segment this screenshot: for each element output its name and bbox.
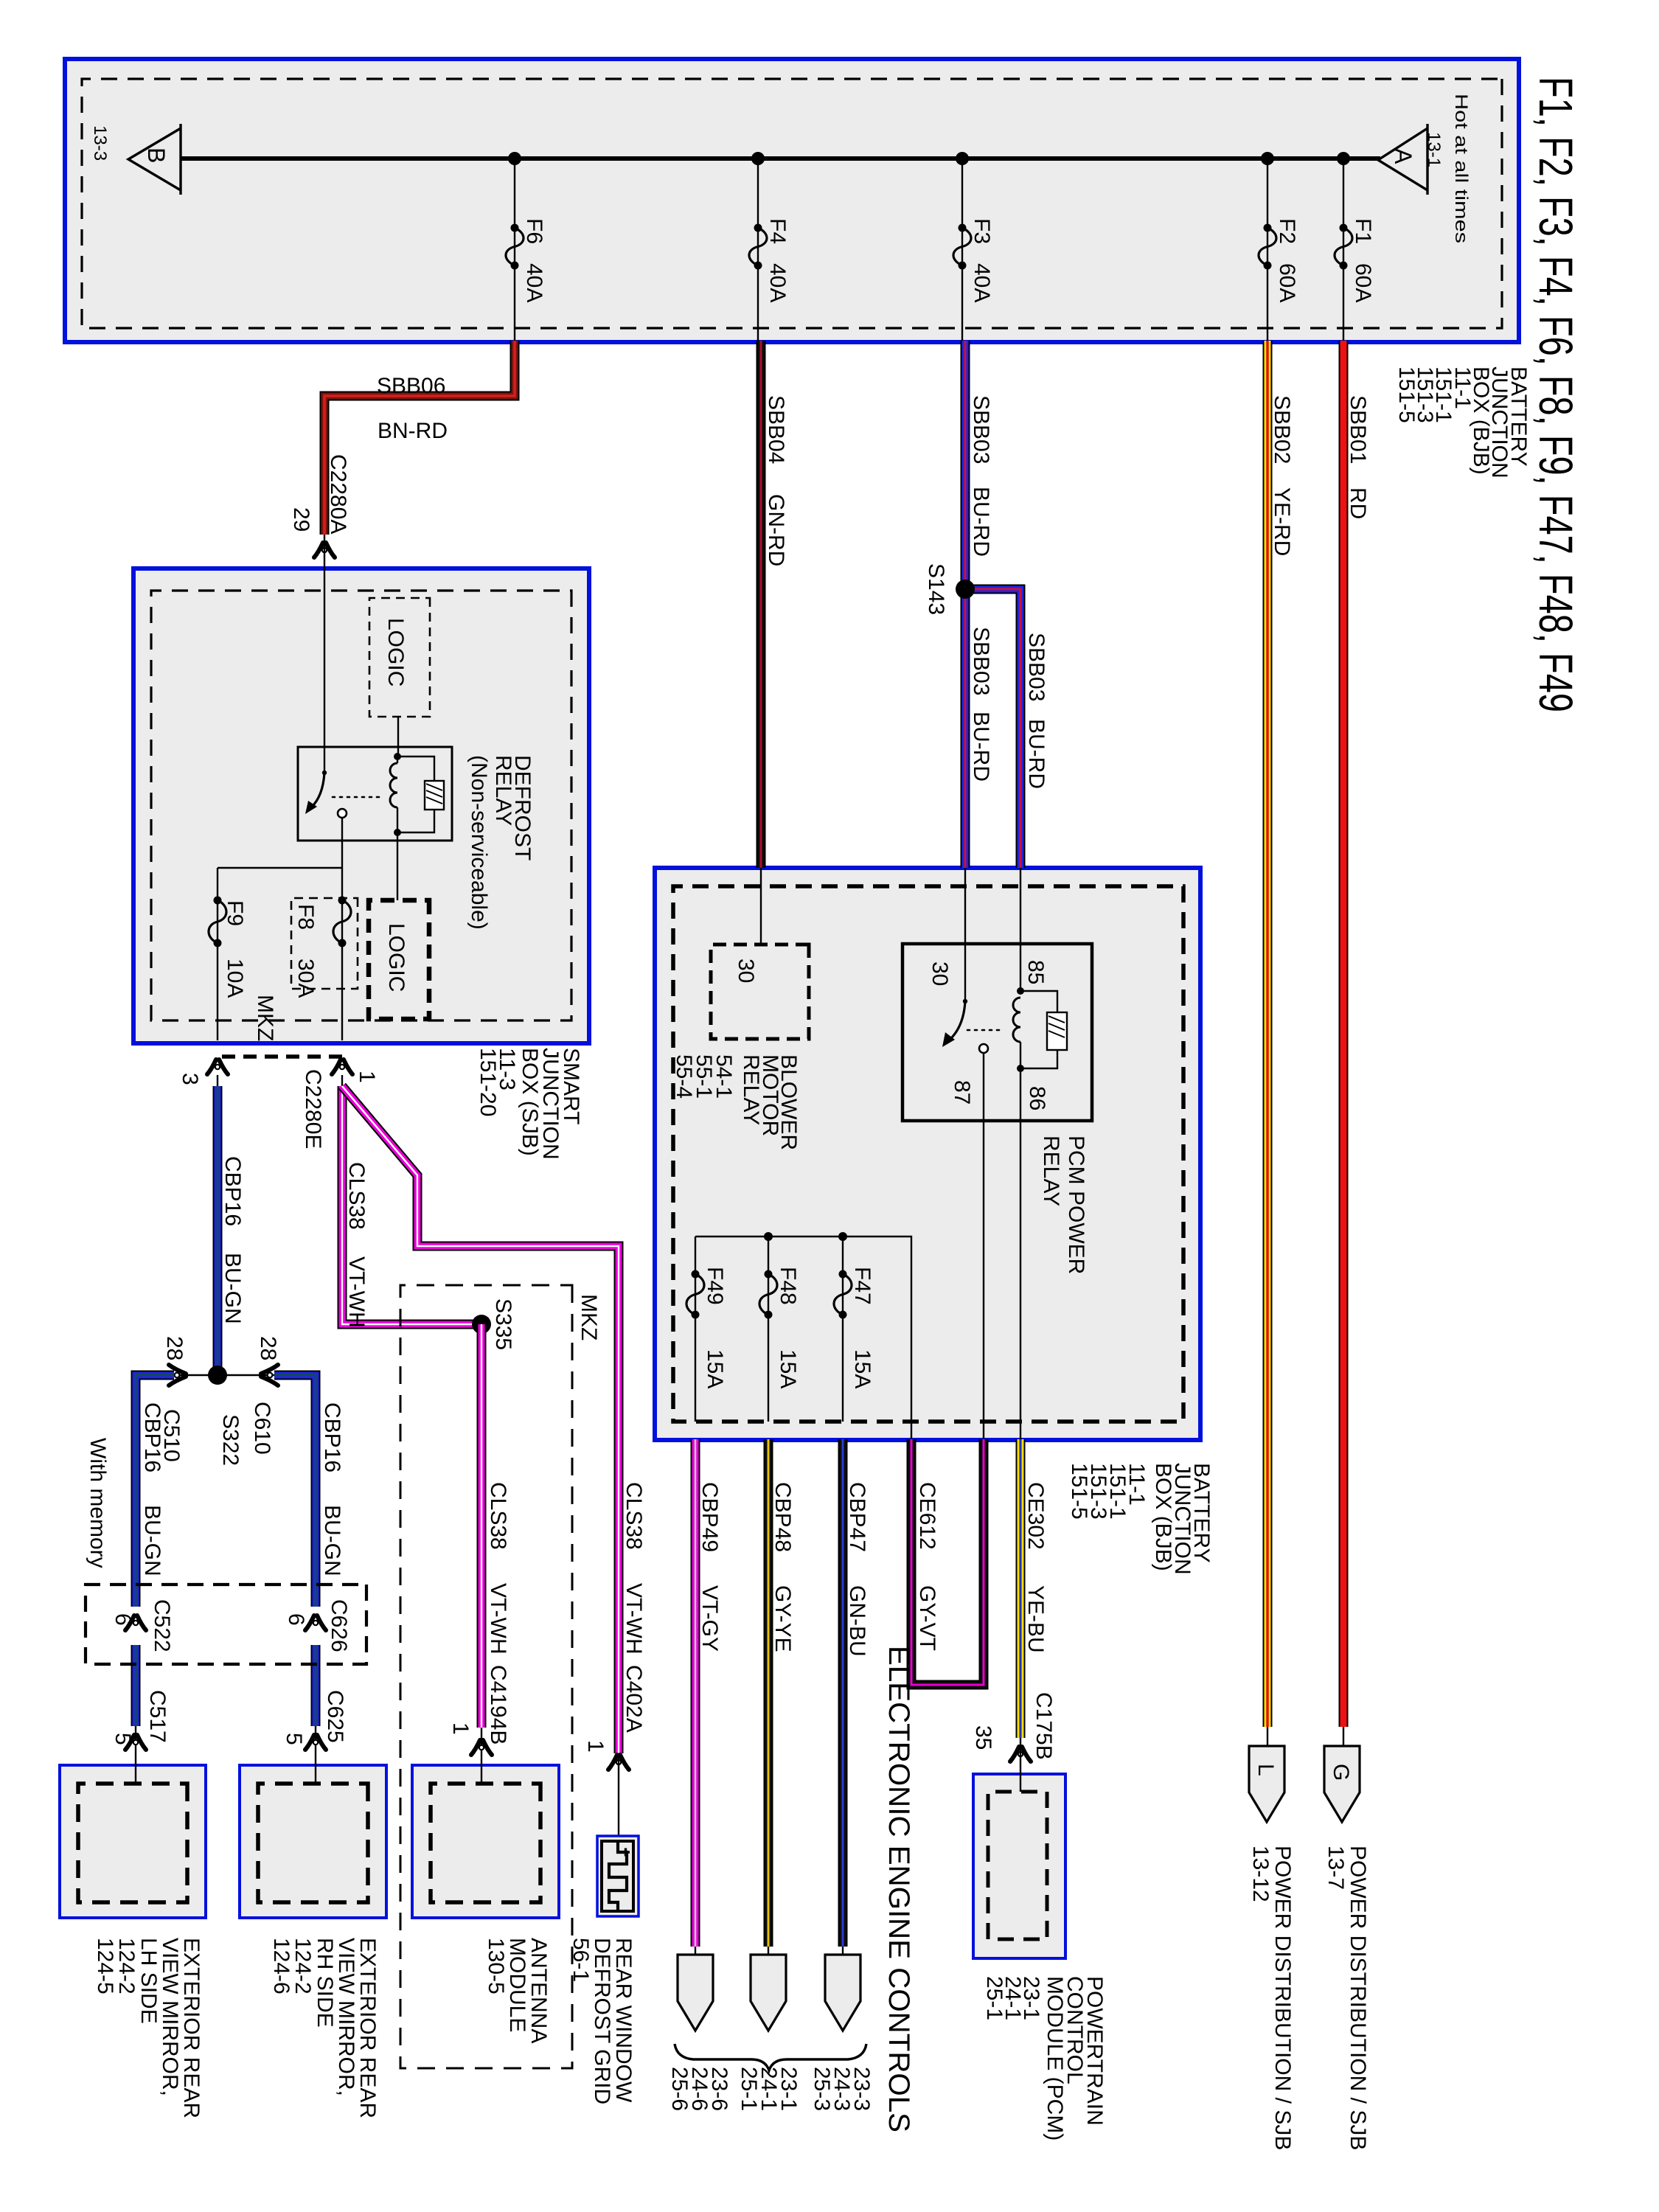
svg-text:CBP49: CBP49 [698, 1482, 722, 1552]
connector C610 arrow [261, 1365, 278, 1385]
svg-text:F6: F6 [522, 218, 546, 244]
label CBP16 BU-GN feed [220, 1156, 245, 1324]
svg-text:F9: F9 [223, 900, 247, 926]
svg-text:BN-RD: BN-RD [378, 419, 448, 443]
BJB1 inner dashed border [82, 79, 1502, 328]
label 6 C626 [284, 1599, 351, 1652]
svg-text:124-5: 124-5 [93, 1938, 117, 1994]
svg-text:GY-VT: GY-VT [915, 1585, 939, 1651]
svg-text:F48: F48 [776, 1267, 800, 1305]
label C2280A [326, 454, 350, 534]
svg-text:LH SIDE: LH SIDE [136, 1938, 161, 2024]
svg-text:F4: F4 [765, 218, 790, 244]
svg-text:13-3: 13-3 [90, 125, 110, 161]
svg-text:BOX (SJB): BOX (SJB) [518, 1048, 542, 1156]
svg-text:SBB06: SBB06 [377, 374, 445, 398]
BJB2 label block [1067, 1463, 1214, 1575]
battery junction box BJB1 outline [65, 59, 1519, 342]
svg-text:F1, F2, F3, F4, F6, F8, F9, F4: F1, F2, F3, F4, F6, F8, F9, F47, F48, F4… [1529, 77, 1582, 712]
connector C626 arrow [305, 1615, 326, 1630]
labels 23-3 24-3 25-3 [810, 2067, 874, 2111]
svg-text:13-7: 13-7 [1324, 1846, 1348, 1890]
svg-text:C2280A: C2280A [326, 454, 350, 534]
svg-text:86: 86 [1025, 1086, 1049, 1110]
svg-text:SBB03: SBB03 [969, 627, 993, 695]
fuse F8 [333, 897, 351, 947]
antenna module box [412, 1765, 559, 1918]
label Hot at all times [1451, 94, 1471, 243]
label CE612 GY-VT [915, 1482, 939, 1651]
svg-text:30A: 30A [293, 959, 318, 998]
defrost relay box [298, 747, 452, 841]
BJB1 label block [1394, 366, 1531, 479]
svg-text:C610: C610 [250, 1402, 274, 1455]
svg-text:C626: C626 [327, 1599, 351, 1652]
wire SBB02 YE-RD [1263, 341, 1273, 1727]
svg-text:6: 6 [111, 1613, 135, 1626]
PCM relay pin labels [928, 960, 1049, 1110]
svg-text:87: 87 [950, 1080, 974, 1105]
With memory dashed box [86, 1585, 366, 1664]
label CBP16 BU-GN RH branch [320, 1402, 344, 1576]
defrost relay dotted link [333, 796, 384, 799]
PCM relay switch [942, 945, 988, 1121]
blower motor relay dashed box [711, 945, 809, 1039]
label MKZ SJB [253, 995, 277, 1041]
label MKZ [577, 1294, 601, 1340]
svg-text:POWER DISTRIBUTION / SJB: POWER DISTRIBUTION / SJB [1270, 1846, 1295, 2150]
svg-text:15A: 15A [776, 1349, 800, 1388]
battery junction box BJB2 outline [655, 868, 1200, 1440]
label CLS38 VT-WH long run [622, 1482, 646, 1733]
wire CBP48 GY-YE [764, 1439, 773, 1955]
svg-text:151-5: 151-5 [1394, 366, 1419, 423]
svg-text:25-6: 25-6 [667, 2067, 692, 2111]
svg-text:60A: 60A [1275, 263, 1299, 302]
bus bar [181, 156, 1380, 161]
label POWER DISTRIBUTION SJB 13-12 [1248, 1846, 1295, 2150]
svg-text:56-1: 56-1 [568, 1938, 593, 1982]
connector C4194B arrow [471, 1740, 492, 1755]
wire LOGIC1 to coil [397, 717, 399, 757]
svg-text:A: A [1390, 148, 1416, 164]
wire CE612 GY-VT U-turn [911, 1439, 984, 1685]
label pin 3 [178, 1073, 202, 1085]
svg-text:C517: C517 [145, 1690, 170, 1743]
svg-text:124-6: 124-6 [269, 1938, 293, 1994]
label 6 C522 [111, 1599, 174, 1652]
svg-text:POWER DISTRIBUTION / SJB: POWER DISTRIBUTION / SJB [1346, 1846, 1370, 2150]
powertrain control module box [973, 1774, 1065, 1958]
svg-text:PCM POWER: PCM POWER [1064, 1135, 1088, 1274]
wire SBB04 GN-RD [757, 341, 766, 868]
svg-text:5: 5 [282, 1733, 306, 1745]
wire pin87 inside BJB2 [983, 1121, 984, 1439]
exterior rear view mirror RH box [240, 1765, 386, 1918]
svg-text:LOGIC: LOGIC [383, 618, 408, 686]
label CE302 YE-BU [1023, 1482, 1048, 1653]
label CLS38 VT-WH antenna [486, 1482, 510, 1745]
wire CBP16 LH branch [136, 1375, 174, 1765]
label F9 10A [223, 900, 247, 998]
title F-list [1529, 77, 1582, 712]
wire BJB1 branch F4 [757, 159, 759, 341]
fuse F4 [749, 218, 790, 302]
svg-text:40A: 40A [970, 263, 994, 302]
connector C402A arrow [608, 1753, 629, 1841]
wire CBP16 BU-GN feed [217, 1075, 218, 1375]
wire CLS38 VT-WH from SJB [342, 1075, 481, 1324]
terminal CBP48 [751, 1955, 786, 2031]
node bus junction F3 [956, 152, 969, 165]
PCM label block [982, 1976, 1107, 2140]
svg-text:F1: F1 [1351, 218, 1375, 244]
wire SBB03b into relay 85 [1020, 868, 1021, 945]
BLOWER MOTOR RELAY label [672, 1054, 801, 1150]
svg-text:C2280E: C2280E [301, 1069, 325, 1149]
svg-text:SBB03: SBB03 [969, 395, 993, 464]
label CBP47 GN-BU [845, 1482, 869, 1657]
F8 dashed box [291, 898, 358, 989]
PCM relay coil resistor [1020, 991, 1067, 1068]
defrost relay switch [305, 747, 347, 868]
svg-text:VT-GY: VT-GY [698, 1585, 722, 1652]
svg-text:GN-RD: GN-RD [764, 494, 788, 566]
wire F47 branch [842, 1237, 844, 1422]
label pin 1 [355, 1071, 379, 1083]
svg-text:1: 1 [355, 1071, 379, 1083]
svg-text:25-1: 25-1 [737, 2067, 761, 2111]
svg-text:MKZ: MKZ [253, 995, 277, 1041]
mirror LH label [93, 1938, 204, 2118]
label C2280E [301, 1069, 325, 1149]
label C175B [1032, 1692, 1056, 1760]
svg-text:BU-GN: BU-GN [140, 1505, 164, 1576]
svg-text:S322: S322 [218, 1414, 243, 1466]
wire SBB06 BN-RD [324, 341, 515, 535]
svg-text:F3: F3 [970, 218, 994, 244]
wire CE302 YE-BU [1016, 1439, 1026, 1738]
svg-text:6: 6 [284, 1613, 308, 1626]
svg-text:MODULE (PCM): MODULE (PCM) [1043, 1976, 1067, 2140]
svg-text:ELECTRONIC ENGINE CONTROLS: ELECTRONIC ENGINE CONTROLS [883, 1646, 915, 2132]
svg-text:SBB02: SBB02 [1270, 395, 1294, 464]
svg-text:RD: RD [1346, 487, 1370, 519]
label pin 29 [289, 507, 313, 532]
label SBB04 GN-RD [764, 395, 788, 566]
svg-text:SBB04: SBB04 [764, 395, 788, 464]
PCM relay coil [1013, 945, 1024, 1121]
MKZ dashed box [400, 1285, 572, 2068]
svg-text:CBP16: CBP16 [140, 1402, 164, 1472]
svg-text:YE-BU: YE-BU [1023, 1585, 1048, 1653]
defrost relay coil resistor [397, 757, 444, 832]
defrost relay coil [390, 753, 401, 836]
antenna module label [484, 1938, 551, 2043]
svg-text:C175B: C175B [1032, 1692, 1056, 1760]
svg-text:CLS38: CLS38 [486, 1482, 510, 1550]
wire F9 branch [217, 868, 218, 1040]
label CBP49 VT-GY [698, 1482, 722, 1652]
label BN-RD [378, 419, 448, 443]
wire SBB02 tail [1267, 1727, 1268, 1746]
svg-text:25-3: 25-3 [810, 2067, 834, 2111]
svg-text:CLS38: CLS38 [344, 1162, 369, 1230]
label CLS38 VT-WH seg1 [344, 1162, 369, 1328]
label 13-3 [90, 125, 110, 161]
svg-text:35: 35 [971, 1725, 995, 1750]
fuse F1 [1335, 218, 1375, 302]
svg-text:SBB01: SBB01 [1346, 395, 1370, 464]
wire SBB03a into relay 30 [964, 868, 966, 945]
label ELECTRONIC ENGINE CONTROLS [883, 1646, 915, 2132]
svg-text:40A: 40A [765, 263, 790, 302]
svg-text:Hot at all times: Hot at all times [1451, 94, 1471, 243]
node S143 [924, 563, 975, 615]
wire CBP47 GN-BU [838, 1439, 848, 1955]
wire relay to fuses F8 F9 [218, 867, 342, 869]
wire CBP16 RH branch [274, 1375, 316, 1765]
svg-text:15A: 15A [703, 1349, 727, 1388]
wire BJB1 branch F3 [961, 159, 963, 341]
defrost grid label [568, 1938, 636, 2104]
connector pin1 arrow [332, 1060, 352, 1074]
smart junction box SJB outline [133, 568, 589, 1043]
svg-text:BU-RD: BU-RD [1024, 719, 1048, 789]
fuse F2 [1259, 218, 1299, 302]
connector C175B arrow [1010, 1738, 1031, 1774]
connector C522 arrow [125, 1615, 146, 1630]
label SBB01 RD [1346, 395, 1370, 519]
wire splice bar S322 [136, 1374, 317, 1376]
svg-text:1: 1 [583, 1740, 608, 1753]
terminal L [1249, 1746, 1284, 1822]
wire coil to LOGIC2 [397, 832, 398, 900]
svg-text:130-5: 130-5 [484, 1938, 508, 1994]
wire SBB01 RD [1339, 341, 1349, 1727]
wire F48 branch [768, 1237, 769, 1422]
label SBB03 BU-RD upper [969, 395, 993, 557]
wire SBB04 into blower relay [760, 868, 762, 945]
label 28 C510 [159, 1336, 187, 1462]
terminal CBP47 [825, 1955, 860, 2031]
fuse F3 [953, 218, 994, 302]
svg-text:VT-WH: VT-WH [486, 1583, 510, 1655]
PCM POWER RELAY label [1039, 1135, 1088, 1274]
label 28 C610 [250, 1336, 280, 1455]
fuse F48 [759, 1267, 800, 1388]
svg-text:15A: 15A [850, 1349, 874, 1388]
wire F8 branch [341, 868, 343, 1040]
svg-text:28: 28 [256, 1336, 280, 1360]
svg-text:C4194B: C4194B [486, 1665, 510, 1745]
node bus junction F6 [508, 152, 521, 165]
SJB inner dashed border [151, 591, 571, 1020]
C2280E connector dashed line [218, 1054, 342, 1059]
svg-text:25-1: 25-1 [982, 1976, 1006, 2020]
LOGIC box 2 [369, 900, 429, 1019]
svg-text:YE-RD: YE-RD [1270, 487, 1294, 556]
svg-text:F2: F2 [1275, 218, 1299, 244]
svg-text:S143: S143 [924, 563, 948, 615]
svg-text:RELAY: RELAY [491, 755, 515, 826]
svg-text:BU-GN: BU-GN [220, 1253, 245, 1324]
PCM power relay box [902, 944, 1092, 1121]
svg-text:CBP16: CBP16 [220, 1156, 245, 1226]
svg-text:BU-RD: BU-RD [969, 712, 993, 782]
wire BJB1 branch F1 [1343, 159, 1344, 341]
svg-text:RELAY: RELAY [1039, 1135, 1063, 1206]
node S335 [472, 1298, 515, 1350]
mirror RH label [269, 1938, 380, 2118]
node F47 junction [838, 1232, 847, 1241]
svg-text:GN-BU: GN-BU [845, 1585, 869, 1657]
svg-text:3: 3 [178, 1073, 202, 1085]
label CBP48 GY-YE [771, 1482, 795, 1652]
label pin 35 [971, 1725, 995, 1750]
node bus junction F2 [1261, 152, 1274, 165]
svg-text:10A: 10A [223, 959, 247, 998]
svg-text:85: 85 [1023, 960, 1048, 984]
svg-text:CBP47: CBP47 [845, 1482, 869, 1552]
svg-text:(Non-serviceable): (Non-serviceable) [467, 755, 491, 930]
triangle A [1378, 124, 1427, 195]
brace electronic engine controls [675, 2044, 866, 2070]
svg-text:CLS38: CLS38 [622, 1482, 646, 1550]
SJB label block [476, 1048, 583, 1160]
label 13-1 [1424, 132, 1444, 167]
svg-text:SBB03: SBB03 [1024, 633, 1048, 701]
svg-text:RH SIDE: RH SIDE [313, 1938, 337, 2028]
wire into defrost relay [324, 570, 325, 747]
svg-text:With memory: With memory [86, 1438, 110, 1568]
labels 23-1 24-1 25-1 [737, 2067, 801, 2111]
connector C2280A arrow [314, 535, 335, 570]
BJB2 inner dashed border [673, 886, 1183, 1422]
label POWER DISTRIBUTION SJB 13-7 [1324, 1846, 1370, 2150]
svg-text:40A: 40A [522, 263, 546, 302]
svg-text:MKZ: MKZ [577, 1294, 601, 1340]
label CBP16 BU-GN LH branch [140, 1402, 164, 1576]
connector C510 arrow [169, 1365, 186, 1385]
label SBB06 [377, 374, 445, 398]
label 1 C402A [583, 1740, 608, 1753]
wire CLS38 antenna branch [477, 1324, 487, 1765]
wire BJB1 branch F2 [1267, 159, 1268, 341]
exterior rear view mirror LH box [60, 1765, 206, 1918]
svg-text:VT-WH: VT-WH [344, 1256, 369, 1328]
connector C517 arrow [125, 1735, 146, 1750]
wire F49 branch [695, 1237, 696, 1422]
svg-text:F8: F8 [293, 904, 318, 930]
node F48 junction [764, 1232, 773, 1241]
wire CE612 return inside BJB2 [695, 1237, 911, 1439]
wire SBB03 branch to pin 85 [965, 589, 1020, 868]
svg-text:BOX (BJB): BOX (BJB) [1151, 1463, 1175, 1571]
svg-text:S335: S335 [491, 1298, 515, 1350]
svg-text:13-12: 13-12 [1248, 1846, 1273, 1902]
terminal G [1324, 1746, 1360, 1822]
svg-text:RELAY: RELAY [739, 1054, 763, 1125]
svg-text:VT-WH: VT-WH [622, 1583, 646, 1655]
rear window defrost grid box [597, 1836, 639, 1916]
node S322 [208, 1366, 243, 1466]
svg-text:C522: C522 [150, 1599, 174, 1652]
DEFROST RELAY label [467, 755, 535, 930]
label SBB03 BU-RD branch [1024, 633, 1048, 789]
svg-text:CE612: CE612 [915, 1482, 939, 1550]
svg-text:5: 5 [111, 1733, 135, 1745]
PCM relay dotted link [967, 1029, 999, 1032]
svg-text:29: 29 [289, 507, 313, 532]
label 5 C517 [111, 1690, 170, 1745]
label SBB02 YE-RD [1270, 395, 1294, 556]
fuse F49 [686, 1267, 727, 1388]
svg-text:CE302: CE302 [1023, 1482, 1048, 1550]
connector C625 arrow [305, 1735, 326, 1750]
wire pin86 inside BJB2 [1020, 1121, 1021, 1439]
svg-text:BU-RD: BU-RD [969, 487, 993, 557]
node bus junction F1 [1337, 152, 1350, 165]
label SBB03 BU-RD lower [969, 627, 993, 782]
svg-text:F49: F49 [703, 1267, 727, 1305]
svg-text:BU-GN: BU-GN [320, 1505, 344, 1576]
svg-text:55-4: 55-4 [672, 1054, 696, 1099]
wire SBB03 BU-RD upper [961, 341, 970, 868]
label F8 30A [293, 904, 318, 998]
svg-text:G: G [1329, 1764, 1353, 1781]
fuse F6 [506, 218, 546, 302]
svg-text:30: 30 [734, 959, 758, 983]
triangle B [128, 124, 181, 195]
labels 23-6 24-6 25-6 [667, 2067, 731, 2111]
svg-text:151-20: 151-20 [476, 1048, 500, 1116]
terminal CBP49 [678, 1955, 713, 2031]
node bus junction F4 [751, 152, 765, 165]
svg-text:L: L [1253, 1764, 1278, 1776]
svg-text:30: 30 [928, 961, 952, 986]
wire BJB1 branch F6 [514, 159, 515, 341]
svg-text:CBP48: CBP48 [771, 1482, 795, 1552]
label 5 C625 [282, 1690, 347, 1745]
svg-text:GY-YE: GY-YE [771, 1585, 795, 1652]
svg-text:CBP16: CBP16 [320, 1402, 344, 1472]
svg-text:60A: 60A [1351, 263, 1375, 302]
svg-text:C625: C625 [323, 1690, 347, 1743]
svg-text:151-5: 151-5 [1067, 1463, 1091, 1520]
wire SBB01 tail [1343, 1727, 1344, 1746]
wire CLS38 diagonal run [342, 1086, 619, 1753]
svg-text:1: 1 [448, 1722, 473, 1735]
LOGIC box 1 [369, 598, 430, 717]
label 1 C4194B [448, 1722, 473, 1735]
PCM inner dashed [988, 1792, 1047, 1939]
wire CBP49 VT-GY [691, 1439, 700, 1955]
fuse F47 [834, 1267, 874, 1388]
svg-text:28: 28 [162, 1336, 187, 1360]
connector pin3 arrow [207, 1060, 228, 1074]
wire into PCM [1020, 1774, 1021, 1792]
label With memory [86, 1438, 110, 1568]
svg-text:LOGIC: LOGIC [384, 923, 408, 992]
svg-text:C402A: C402A [622, 1665, 646, 1733]
svg-text:F47: F47 [850, 1267, 874, 1305]
svg-text:B: B [143, 147, 170, 163]
fuse F9 [209, 897, 226, 947]
